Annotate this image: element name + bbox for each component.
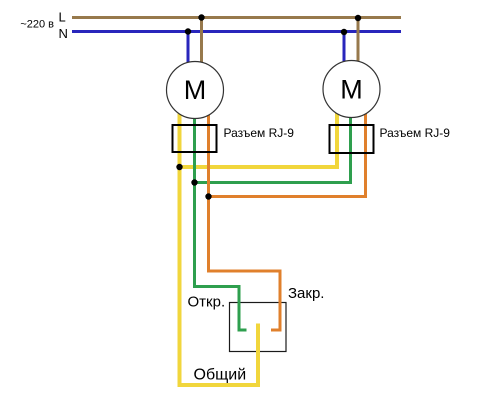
wire N neutral line — [72, 30, 401, 33]
junction green — [191, 179, 197, 185]
svg-text:Откр.: Откр. — [188, 294, 226, 311]
svg-text:N: N — [59, 26, 68, 41]
junction N-M2 — [341, 29, 347, 35]
junction yellow — [176, 164, 182, 170]
connector X2 — [330, 125, 374, 153]
svg-text:Закр.: Закр. — [288, 285, 324, 302]
motor M2 — [323, 61, 380, 118]
junction L-M1 — [198, 14, 204, 20]
svg-text:Общий: Общий — [194, 367, 247, 384]
svg-text:~220 в: ~220 в — [20, 19, 54, 31]
junction L-M2 — [355, 15, 361, 21]
wire M1 brown drop — [200, 18, 203, 71]
switch box S1 — [230, 303, 287, 352]
wire M2 blue drop — [343, 32, 346, 70]
wire orange link to M2 — [209, 95, 366, 197]
svg-text:Разъем RJ-9: Разъем RJ-9 — [224, 126, 295, 140]
wire green link to M2 — [195, 95, 351, 183]
wire M2 brown drop — [357, 18, 360, 70]
wire yellow common net — [180, 95, 259, 385]
junction N-M1 — [185, 28, 191, 34]
wire M1 blue drop — [187, 32, 190, 71]
svg-text:Разъем RJ-9: Разъем RJ-9 — [380, 126, 451, 140]
wire yellow link to M2 — [180, 95, 338, 167]
svg-text:L: L — [59, 10, 66, 25]
wire L phase line — [72, 16, 401, 19]
wire green open net — [195, 95, 247, 330]
wire orange close net — [209, 95, 281, 330]
motor M1 — [167, 62, 224, 119]
svg-text:M: M — [184, 75, 207, 105]
connector X1 — [173, 125, 217, 152]
junction orange — [205, 193, 211, 199]
svg-text:M: M — [340, 75, 363, 105]
